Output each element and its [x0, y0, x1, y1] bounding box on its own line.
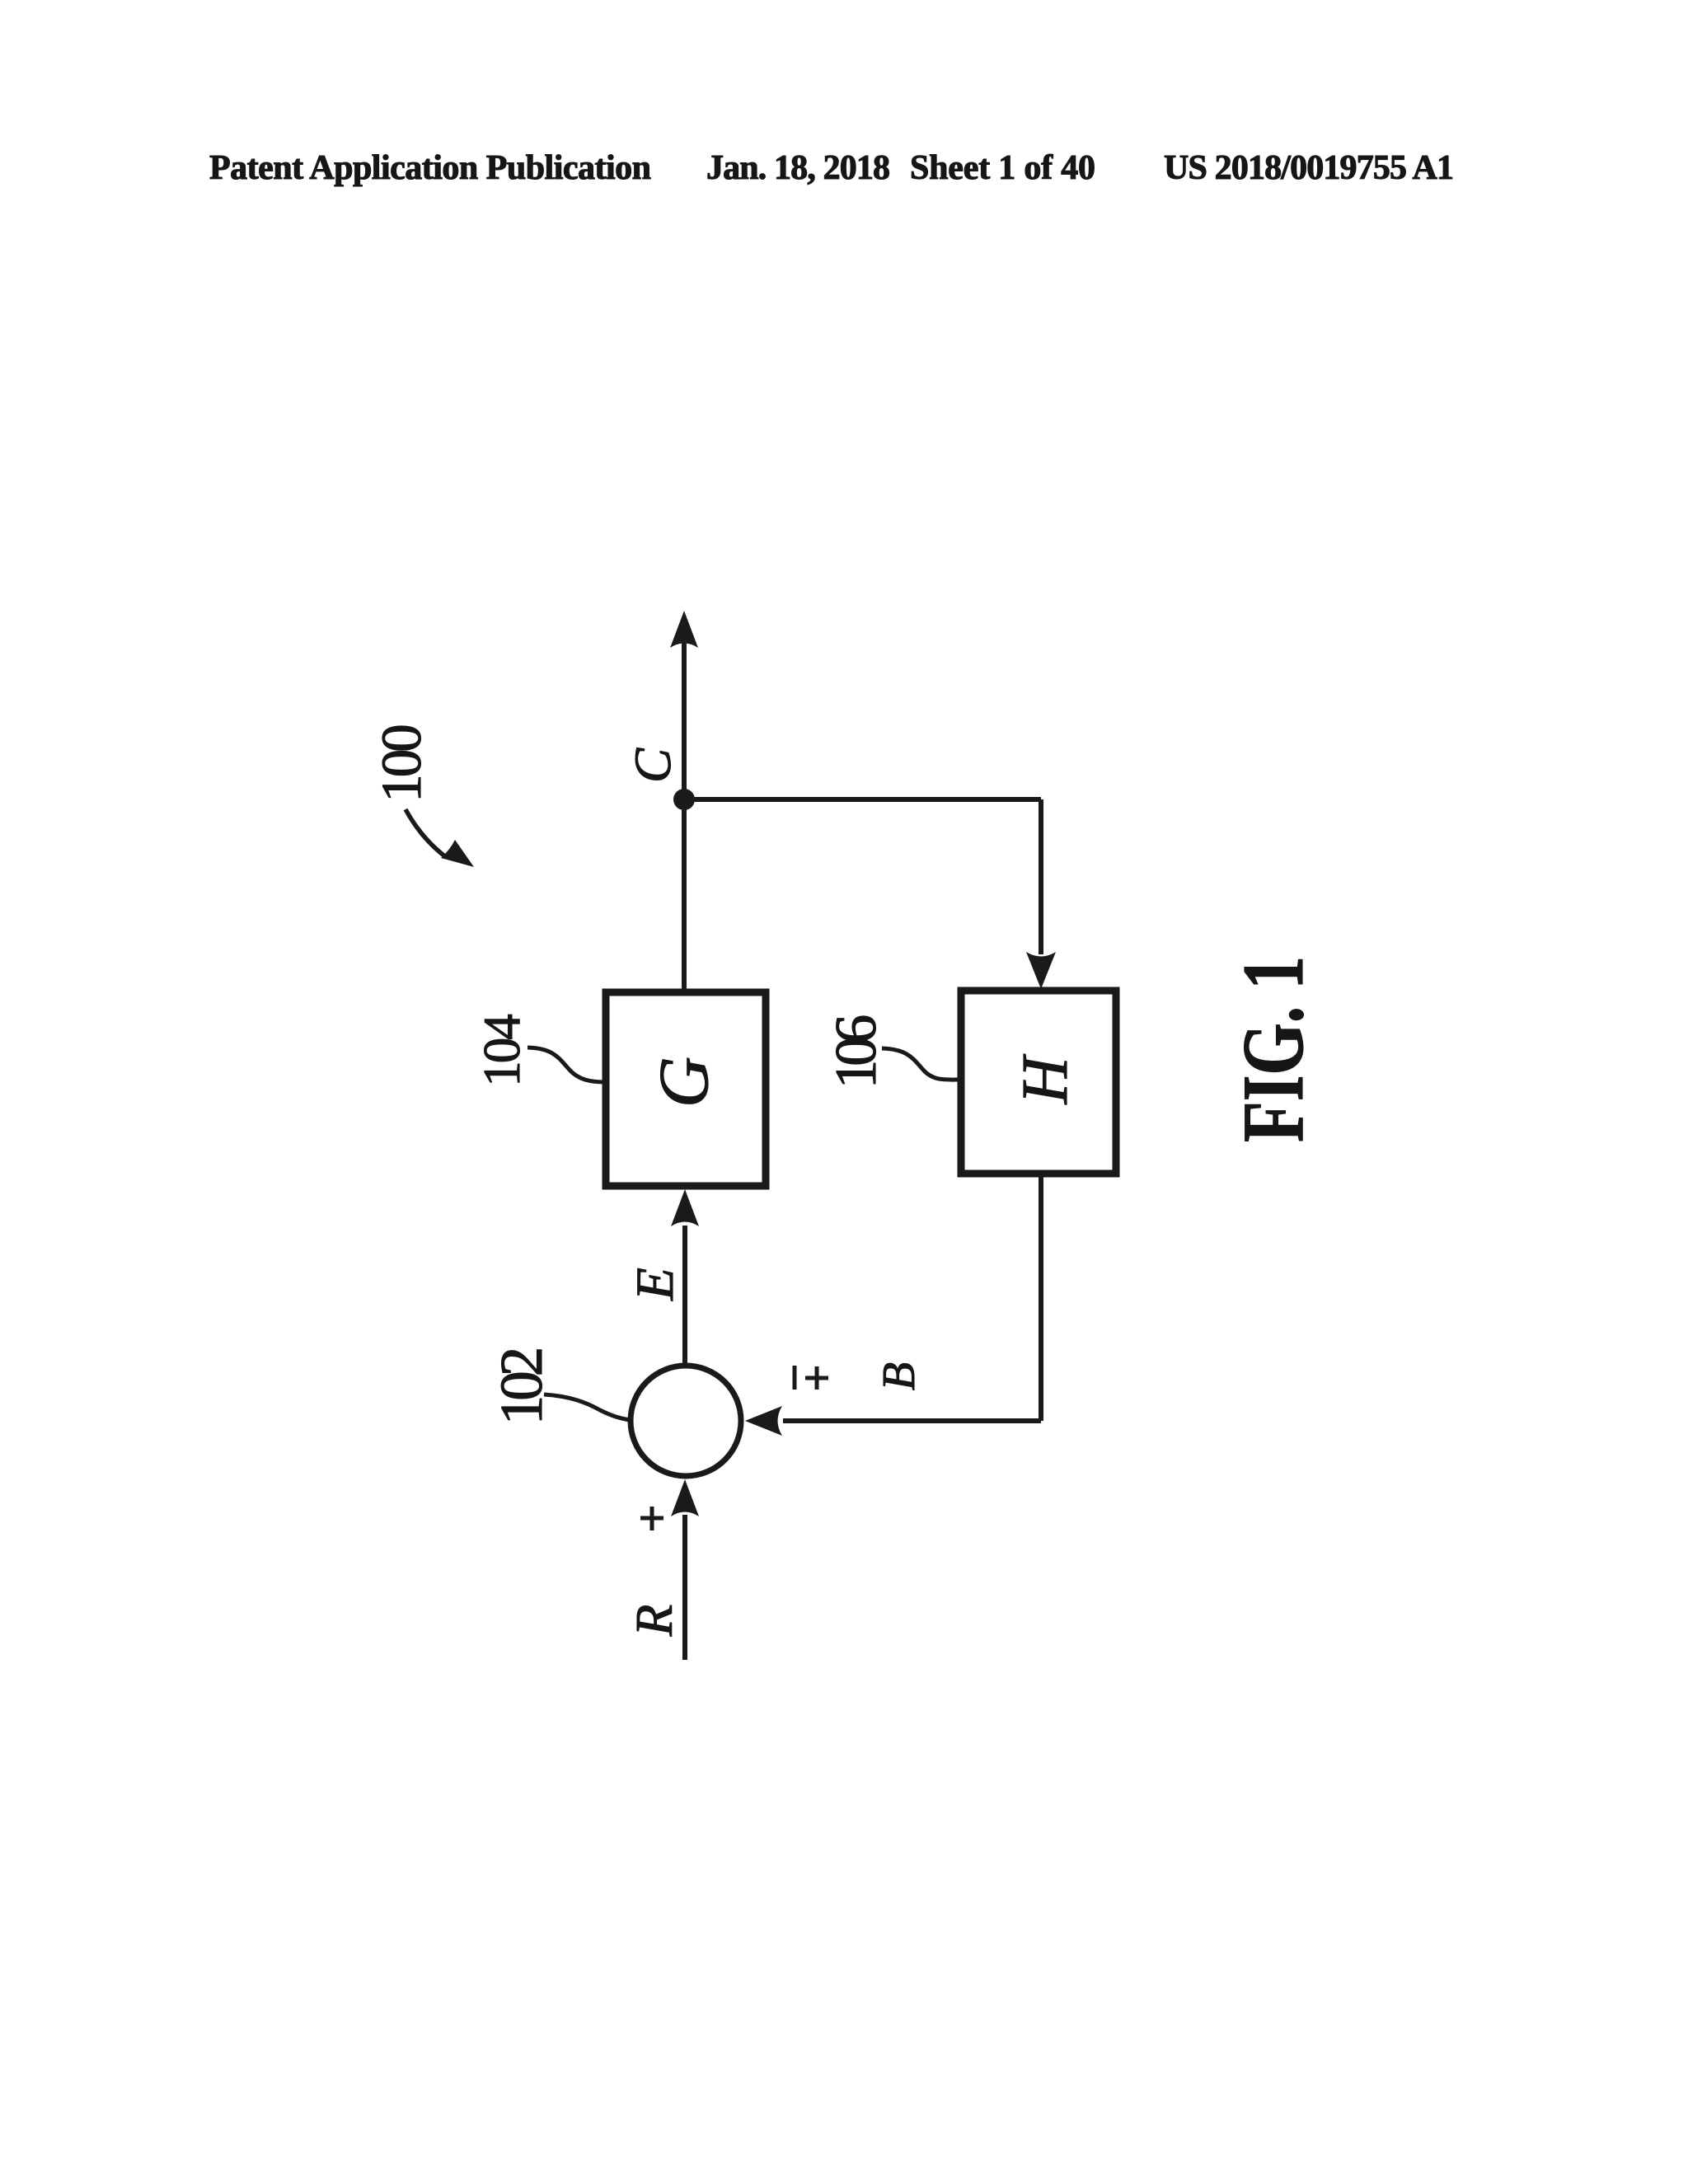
- header row: [209, 149, 1454, 187]
- arrowhead B into summer right (left): [745, 1406, 782, 1436]
- arrowhead into H top (down): [1026, 952, 1056, 989]
- plus-minus sign at B input: [795, 1366, 828, 1390]
- wire: feedback vertical from H bottom: [1039, 1174, 1043, 1421]
- svg-text:R: R: [626, 1605, 683, 1637]
- svg-text:H: H: [1010, 1054, 1081, 1105]
- arrowhead C output (up): [670, 611, 698, 648]
- svg-text:Patent Application Publication: Patent Application Publication: [209, 149, 651, 187]
- arrowhead R into summer bottom (up): [671, 1479, 699, 1516]
- svg-text:US 2018/0019755 A1: US 2018/0019755 A1: [1164, 149, 1454, 187]
- wire: G output up through node to C arrow: [682, 639, 687, 992]
- svg-text:Sheet 1 of 40: Sheet 1 of 40: [910, 149, 1095, 187]
- svg-text:FIG. 1: FIG. 1: [1225, 956, 1321, 1142]
- box H 106: [961, 991, 1116, 1174]
- arrowhead E into G bottom (up): [671, 1189, 699, 1226]
- summing junction circle 102: [631, 1366, 741, 1476]
- svg-text:104: 104: [473, 1015, 531, 1087]
- svg-text:G: G: [644, 1057, 723, 1108]
- leader from 104 to box G: [527, 1047, 606, 1082]
- svg-text:E: E: [626, 1268, 685, 1301]
- svg-text:102: 102: [488, 1349, 555, 1425]
- svg-text:106: 106: [824, 1015, 889, 1089]
- svg-text:C: C: [624, 748, 682, 783]
- wire: B feedback horizontal into summer: [783, 1418, 1041, 1423]
- svg-text:100: 100: [370, 726, 433, 803]
- wire: R input up into summer bottom: [682, 1515, 687, 1660]
- wire: E arrow from summer top to G bottom: [682, 1226, 687, 1368]
- svg-text:Jan. 18, 2018: Jan. 18, 2018: [706, 149, 890, 187]
- box G 104: [606, 992, 766, 1186]
- leader arrow from 100: [406, 809, 446, 857]
- plus sign at R input: [640, 1507, 663, 1530]
- leader from 106 to box H: [882, 1048, 961, 1080]
- wire: node to right (feedback top): [684, 797, 1041, 802]
- wire: feedback down into H top: [1039, 799, 1043, 954]
- leader from 102 to summer: [544, 1394, 630, 1420]
- node dot at C tap: [673, 789, 695, 810]
- svg-text:B: B: [874, 1362, 925, 1390]
